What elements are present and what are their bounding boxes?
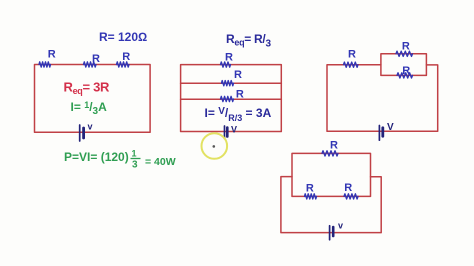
wire circuit3 outer loop: [327, 65, 438, 132]
battery V (circuit1): [79, 125, 81, 141]
svg-text:R: R: [122, 51, 130, 63]
resistor R (circuit4 bottom right): [344, 194, 358, 199]
svg-text:R: R: [48, 49, 56, 61]
svg-text:R: R: [92, 53, 100, 65]
svg-text:P=VI= (120): P=VI= (120): [64, 150, 129, 164]
svg-text:R: R: [330, 139, 338, 151]
resistor R (circuit3 box top): [396, 51, 413, 56]
wire circuit2 lower rail: [181, 98, 282, 100]
resistor R (circuit1 right): [117, 62, 130, 67]
resistor R (circuit4 bottom left): [305, 194, 317, 199]
svg-text:R: R: [225, 51, 233, 63]
resistor R (circuit3 box bottom): [397, 73, 413, 78]
resistor R (circuit1 middle): [84, 62, 97, 67]
svg-text:R= 120Ω: R= 120Ω: [99, 30, 147, 44]
wire circuit4 inner rectangle: [292, 153, 371, 196]
wire circuit1 rectangle: [35, 65, 151, 133]
resistor R (circuit2 bottom): [221, 96, 234, 101]
svg-text:R: R: [306, 182, 314, 194]
wire circuit2 middle rail: [181, 82, 282, 84]
svg-text:R: R: [402, 41, 410, 53]
resistor R (circuit2 top): [221, 62, 231, 67]
resistor R (circuit4 top branch): [322, 151, 338, 156]
wire circuit4 outer loop: [281, 177, 381, 233]
svg-text:V: V: [231, 125, 237, 135]
svg-text:Req= 3R: Req= 3R: [64, 80, 111, 97]
svg-text:R: R: [234, 69, 242, 81]
resistor R (circuit3 series): [344, 62, 359, 67]
battery V (circuit2): [224, 126, 226, 139]
svg-text:R: R: [402, 65, 410, 77]
svg-text:1: 1: [132, 149, 137, 159]
svg-text:R: R: [348, 48, 356, 60]
wire circuit2 rectangle: [181, 65, 282, 132]
cursor highlight circle: [202, 133, 228, 159]
svg-text:v: v: [88, 122, 93, 132]
svg-text:v: v: [338, 221, 343, 231]
battery V (circuit4): [329, 226, 331, 240]
svg-text:= 40W: = 40W: [145, 156, 176, 168]
battery V (circuit3): [378, 126, 380, 141]
svg-text:V: V: [387, 122, 394, 133]
svg-text:R: R: [236, 89, 244, 101]
resistor R (circuit1 left): [39, 62, 51, 67]
wire circuit3 parallel box: [381, 54, 427, 76]
svg-text:R: R: [344, 182, 352, 194]
resistor R (circuit2 middle): [222, 81, 234, 86]
svg-text:3: 3: [132, 160, 138, 171]
